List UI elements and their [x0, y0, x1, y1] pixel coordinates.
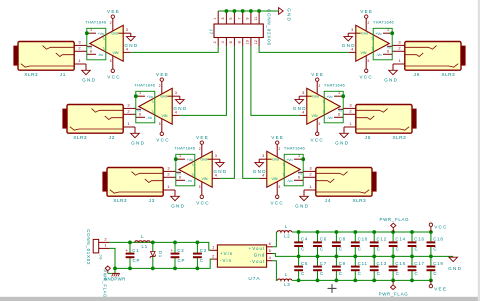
svg-text:7: 7	[238, 17, 242, 19]
svg-text:1: 1	[298, 154, 300, 158]
wire	[292, 279, 431, 281]
wire	[243, 46, 260, 178]
capacitor C16	[408, 232, 425, 256]
svg-text:VEE: VEE	[271, 135, 284, 140]
svg-text:VCC: VCC	[196, 200, 210, 205]
svg-text:+Vo: +Vo	[286, 158, 292, 162]
svg-text:L2: L2	[284, 233, 290, 238]
svg-text:+Vout: +Vout	[249, 246, 266, 251]
svg-text:GND: GND	[293, 106, 307, 111]
svg-text:10: 10	[246, 40, 250, 44]
ground	[124, 33, 138, 48]
svg-text:C1: C1	[132, 248, 139, 253]
power flag PWR_FLAG	[379, 217, 409, 232]
connector J2 (XLR3 jack)	[63, 102, 136, 141]
ground GNDPWR	[104, 273, 126, 281]
svg-text:C: C	[415, 271, 419, 276]
svg-text:VIN: VIN	[202, 177, 208, 181]
power VCC	[310, 132, 324, 142]
svg-text:Vo: Vo	[298, 172, 302, 176]
svg-text:J7: J7	[209, 29, 214, 35]
svg-text:12: 12	[254, 40, 258, 44]
svg-text:3: 3	[302, 91, 304, 95]
ground	[171, 190, 186, 208]
op-amp U4 (THAT1646)	[259, 144, 305, 195]
svg-text:GND: GND	[82, 77, 96, 82]
svg-text:VEE: VEE	[311, 72, 324, 77]
svg-text:THAT1646: THAT1646	[373, 19, 395, 24]
power VEE	[196, 135, 209, 144]
power VEE	[311, 72, 324, 81]
junction	[372, 279, 376, 283]
wire	[109, 248, 115, 273]
svg-text:J6: J6	[414, 72, 421, 78]
power VCC	[196, 195, 210, 205]
junction	[297, 230, 301, 234]
svg-text:THAT1646: THAT1646	[324, 82, 346, 87]
ground	[253, 159, 267, 174]
svg-text:1: 1	[338, 91, 340, 95]
svg-text:+: +	[125, 248, 128, 253]
svg-text:CP: CP	[133, 258, 141, 263]
junction	[225, 9, 229, 13]
svg-text:XLR3: XLR3	[113, 198, 127, 204]
junction	[151, 241, 155, 245]
svg-text:XLR3: XLR3	[352, 198, 366, 204]
svg-text:11: 11	[254, 17, 258, 21]
svg-text:Gnd: Gnd	[272, 158, 279, 162]
junction	[335, 230, 339, 234]
ground	[279, 8, 292, 23]
svg-text:C6: C6	[320, 237, 327, 242]
svg-text:J5: J5	[365, 135, 372, 141]
svg-text:PWR_FLAG: PWR_FLAG	[379, 291, 409, 296]
junction	[151, 267, 155, 271]
svg-text:C9: C9	[339, 261, 346, 266]
wire	[130, 46, 218, 52]
svg-text:3: 3	[126, 28, 128, 32]
svg-text:GND: GND	[124, 43, 138, 48]
svg-text:6: 6	[298, 176, 300, 180]
junction	[297, 279, 301, 283]
junction	[113, 267, 117, 271]
svg-text:C: C	[320, 271, 324, 276]
svg-text:6: 6	[179, 176, 181, 180]
svg-text:VCC: VCC	[359, 74, 373, 79]
wire	[130, 242, 210, 250]
svg-text:2: 2	[319, 84, 321, 88]
junction	[134, 94, 138, 98]
svg-text:5: 5	[279, 185, 281, 189]
svg-text:-Vout: -Vout	[250, 259, 266, 264]
svg-text:C: C	[301, 271, 305, 276]
svg-text:2: 2	[213, 41, 217, 43]
svg-text:VCC: VCC	[156, 137, 170, 142]
power VEE	[156, 72, 169, 81]
canvas right edge	[478, 0, 480, 301]
svg-text:C: C	[320, 247, 324, 252]
svg-text:1: 1	[179, 154, 181, 158]
svg-text:C17: C17	[414, 261, 424, 266]
junction	[429, 255, 433, 259]
svg-text:C: C	[339, 271, 343, 276]
svg-text:+: +	[170, 248, 173, 253]
svg-text:5: 5	[368, 59, 370, 63]
svg-text:Gnd: Gnd	[312, 95, 319, 99]
capacitor C18	[427, 232, 444, 256]
junction	[85, 31, 89, 35]
power VCC	[107, 69, 121, 79]
svg-text:-Vin: -Vin	[220, 258, 232, 263]
inductor L2	[277, 224, 292, 239]
svg-text:GND: GND	[171, 203, 185, 208]
svg-text:C7: C7	[320, 261, 327, 266]
svg-text:VEE: VEE	[196, 135, 209, 140]
canvas bottom edge	[0, 297, 480, 301]
svg-text:6: 6	[139, 113, 141, 117]
svg-text:C: C	[433, 247, 437, 252]
capacitor C6	[313, 232, 327, 256]
svg-text:XLR3: XLR3	[441, 72, 455, 78]
svg-text:VEE: VEE	[434, 286, 447, 291]
svg-text:VIN: VIN	[312, 114, 318, 118]
capacitor C7	[313, 256, 327, 280]
svg-text:1: 1	[139, 91, 141, 95]
svg-text:PWR_FLAG: PWR_FLAG	[379, 217, 409, 222]
svg-text:VCC: VCC	[434, 225, 448, 230]
junction	[429, 279, 433, 283]
wire	[273, 232, 278, 247]
op-amp U3 (THAT1646)	[174, 144, 219, 195]
svg-text:C: C	[358, 247, 362, 252]
wire	[273, 261, 278, 281]
junction	[391, 279, 395, 283]
junction	[249, 9, 253, 13]
svg-text:Vo: Vo	[177, 172, 181, 176]
power VCC	[429, 223, 448, 232]
svg-text:8: 8	[238, 41, 242, 43]
zener diode D1	[150, 242, 163, 268]
svg-text:VEE: VEE	[156, 72, 169, 77]
capacitor C2	[170, 242, 185, 268]
svg-text:C: C	[433, 271, 437, 276]
svg-text:-Vo: -Vo	[327, 116, 332, 120]
svg-text:J9: J9	[99, 255, 104, 261]
svg-text:GND: GND	[131, 140, 145, 145]
connector J4 (XLR3 jack)	[303, 165, 376, 204]
power VEE	[360, 9, 373, 18]
svg-text:Vo: Vo	[88, 46, 92, 50]
junction	[174, 157, 178, 161]
svg-text:2: 2	[110, 21, 112, 25]
svg-text:VEE: VEE	[360, 9, 373, 14]
wire	[179, 46, 226, 115]
connector J1 (XLR3 jack)	[14, 39, 87, 78]
svg-text:1: 1	[213, 17, 217, 19]
junction	[128, 241, 132, 245]
power VEE	[107, 9, 120, 18]
wire	[109, 241, 130, 243]
svg-text:D1: D1	[158, 251, 163, 258]
svg-text:-Vo: -Vo	[287, 179, 292, 183]
capacitor C12	[370, 232, 387, 256]
junction	[128, 267, 132, 271]
svg-text:3: 3	[221, 17, 225, 19]
svg-text:GND: GND	[384, 77, 398, 82]
svg-text:Gnd: Gnd	[160, 95, 167, 99]
svg-text:+Vo: +Vo	[98, 32, 104, 36]
capacitor C17	[408, 256, 425, 280]
ground	[131, 127, 146, 145]
svg-text:C: C	[396, 247, 400, 252]
svg-text:C15: C15	[395, 261, 405, 266]
wire	[219, 46, 234, 178]
svg-text:9: 9	[246, 17, 250, 19]
capacitor C1	[125, 242, 140, 268]
svg-text:GND: GND	[213, 169, 227, 174]
svg-text:+Vo: +Vo	[326, 95, 332, 99]
junction	[335, 255, 339, 259]
svg-text:XLR3: XLR3	[24, 72, 38, 78]
junction	[410, 255, 414, 259]
svg-text:GNDPWR: GNDPWR	[104, 277, 126, 282]
svg-text:GND: GND	[335, 140, 349, 145]
svg-text:GND: GND	[253, 169, 267, 174]
junction	[196, 267, 200, 271]
svg-text:1: 1	[387, 28, 389, 32]
svg-text:C2: C2	[177, 248, 184, 253]
wire	[273, 254, 454, 257]
svg-text:GND: GND	[342, 43, 356, 48]
svg-text:VEE: VEE	[107, 9, 120, 14]
ground	[213, 159, 227, 174]
ground	[295, 190, 309, 208]
junction	[257, 9, 261, 13]
svg-text:L: L	[285, 224, 288, 229]
inductor L1	[135, 234, 151, 249]
op-amp U2 (THAT1646)	[134, 81, 179, 132]
svg-text:Gnd: Gnd	[111, 32, 118, 36]
svg-text:C18: C18	[433, 237, 443, 242]
svg-text:5: 5	[229, 17, 233, 19]
svg-text:VIN: VIN	[361, 51, 367, 55]
svg-text:C: C	[200, 258, 204, 263]
svg-text:+Vo: +Vo	[147, 95, 153, 99]
capacitor C11	[351, 256, 368, 280]
svg-text:VCC: VCC	[310, 137, 324, 142]
svg-text:L: L	[285, 272, 288, 277]
svg-text:3: 3	[262, 154, 264, 158]
regulator U7A (DC/DC converter)	[210, 241, 273, 282]
svg-text:C: C	[301, 247, 305, 252]
svg-text:C16: C16	[414, 237, 424, 242]
svg-text:Vo: Vo	[137, 109, 141, 113]
svg-text:VCC: VCC	[107, 74, 121, 79]
junction	[173, 241, 177, 245]
svg-text:C5: C5	[301, 261, 308, 266]
ground	[342, 33, 356, 48]
power VCC	[359, 69, 373, 79]
junction	[390, 31, 394, 35]
junction	[410, 279, 414, 283]
ground	[82, 64, 97, 82]
svg-text:THAT1646: THAT1646	[134, 82, 156, 87]
power VCC	[270, 195, 284, 205]
wire	[251, 46, 300, 115]
op-amp U6 (THAT1646)	[348, 18, 394, 69]
svg-text:GND: GND	[287, 8, 292, 22]
svg-text:C4: C4	[301, 237, 308, 242]
svg-text:C3: C3	[200, 248, 207, 253]
connector J6 (XLR3 jack)	[392, 39, 465, 78]
svg-text:J4: J4	[325, 198, 332, 204]
svg-text:VIN: VIN	[272, 177, 278, 181]
svg-text:THAT1646: THAT1646	[174, 145, 196, 150]
junction	[372, 255, 376, 259]
svg-text:L3: L3	[284, 282, 290, 287]
wire	[218, 10, 278, 12]
capacitor C10	[351, 232, 368, 256]
svg-text:Vo: Vo	[387, 46, 391, 50]
svg-text:GND: GND	[448, 266, 462, 271]
svg-text:6: 6	[338, 113, 340, 117]
svg-text:3: 3	[175, 91, 177, 95]
capacitor C14	[389, 232, 406, 256]
capacitor C9	[332, 256, 346, 280]
power VCC	[156, 132, 170, 142]
junction	[372, 230, 376, 234]
svg-text:CONN_02X06: CONN_02X06	[266, 9, 271, 46]
svg-text:5: 5	[319, 122, 321, 126]
svg-text:6: 6	[229, 41, 233, 43]
junction	[301, 157, 305, 161]
capacitor C4	[294, 232, 308, 256]
svg-text:C: C	[415, 247, 419, 252]
svg-text:-Vo: -Vo	[147, 116, 152, 120]
inductor L3	[277, 272, 292, 287]
svg-text:J1: J1	[60, 72, 67, 78]
svg-text:5: 5	[159, 122, 161, 126]
svg-text:-Vo: -Vo	[376, 53, 381, 57]
svg-text:-Vo: -Vo	[98, 53, 103, 57]
svg-text:Gnd: Gnd	[200, 158, 207, 162]
junction	[316, 230, 320, 234]
power VEE	[429, 280, 447, 291]
connector J9 (CONN_01X02)	[86, 229, 109, 265]
svg-text:C12: C12	[377, 237, 387, 242]
ground	[448, 257, 462, 271]
junction	[173, 267, 177, 271]
ground	[293, 96, 307, 111]
svg-text:5: 5	[110, 59, 112, 63]
svg-text:Vo: Vo	[338, 109, 342, 113]
junction	[410, 230, 414, 234]
svg-text:4: 4	[221, 41, 225, 43]
svg-text:C: C	[339, 247, 343, 252]
junction	[241, 9, 245, 13]
power flag PWR_FLAG	[379, 280, 409, 296]
junction	[316, 255, 320, 259]
capacitor C3	[193, 242, 207, 268]
svg-text:6: 6	[90, 50, 92, 54]
svg-text:C: C	[396, 271, 400, 276]
capacitor C19	[427, 256, 444, 280]
svg-text:C: C	[377, 271, 381, 276]
svg-text:THAT1646: THAT1646	[85, 19, 107, 24]
svg-text:C13: C13	[377, 261, 387, 266]
svg-text:2: 2	[159, 84, 161, 88]
wire	[292, 231, 431, 233]
wire	[115, 259, 211, 268]
junction	[353, 279, 357, 283]
capacitor C15	[389, 256, 406, 280]
junction	[391, 255, 395, 259]
svg-text:2: 2	[368, 21, 370, 25]
svg-text:C: C	[358, 271, 362, 276]
svg-text:GND: GND	[173, 106, 187, 111]
svg-text:THAT1646: THAT1646	[284, 145, 306, 150]
svg-text:-Vo: -Vo	[187, 179, 192, 183]
svg-text:VIN: VIN	[113, 51, 119, 55]
svg-text:XLR3: XLR3	[392, 135, 406, 141]
svg-text:3: 3	[215, 154, 217, 158]
junction	[196, 241, 200, 245]
svg-text:C: C	[377, 247, 381, 252]
svg-text:Gnd: Gnd	[361, 32, 368, 36]
op-amp U1 (THAT1646)	[85, 18, 130, 69]
capacitor C8	[332, 232, 346, 256]
svg-text:+Vin: +Vin	[220, 251, 233, 256]
svg-text:Gnd: Gnd	[254, 253, 266, 258]
svg-text:3: 3	[351, 28, 353, 32]
svg-text:VIN: VIN	[162, 114, 168, 118]
junction	[429, 230, 433, 234]
svg-text:XLR3: XLR3	[73, 135, 87, 141]
svg-text:L: L	[141, 234, 144, 239]
power VEE	[271, 135, 284, 144]
junction	[335, 279, 339, 283]
svg-text:C14: C14	[395, 237, 405, 242]
svg-text:C8: C8	[339, 237, 346, 242]
junction	[341, 94, 345, 98]
junction	[297, 255, 301, 259]
svg-text:6: 6	[387, 50, 389, 54]
svg-text:C10: C10	[358, 237, 368, 242]
wire	[259, 46, 349, 52]
op-amp U5 (THAT1646)	[299, 81, 345, 132]
svg-text:1: 1	[90, 28, 92, 32]
origin cross marker	[328, 284, 337, 293]
svg-text:C19: C19	[433, 261, 443, 266]
svg-text:5: 5	[199, 185, 201, 189]
svg-text:+Vo: +Vo	[187, 158, 193, 162]
svg-text:U7A: U7A	[248, 276, 260, 282]
ground	[335, 127, 349, 145]
svg-text:GND: GND	[295, 203, 309, 208]
ground	[384, 64, 398, 82]
svg-text:2: 2	[279, 147, 281, 151]
svg-text:VCC: VCC	[270, 200, 284, 205]
svg-text:C11: C11	[358, 261, 368, 266]
junction	[353, 230, 357, 234]
connector J5 (XLR3 jack)	[343, 102, 416, 141]
svg-text:PWR_FLAG: PWR_FLAG	[103, 270, 108, 299]
svg-text:L1: L1	[142, 244, 148, 249]
svg-text:+Vo: +Vo	[375, 32, 381, 36]
capacitor C5	[294, 256, 308, 280]
capacitor C13	[370, 256, 387, 280]
svg-text:CONN_01X02: CONN_01X02	[86, 229, 91, 265]
